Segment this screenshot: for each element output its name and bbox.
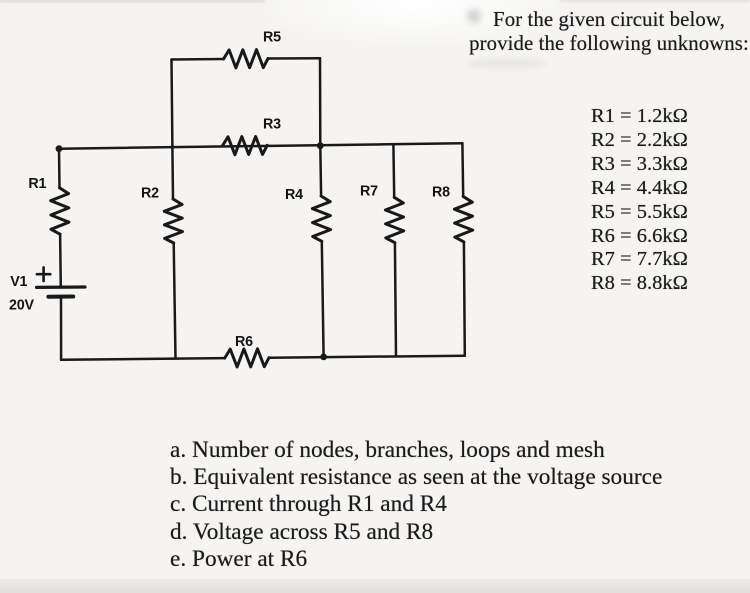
node: bottom bus / R4 junction xyxy=(320,354,327,361)
wire: top horizontal right segment from R5 xyxy=(268,57,320,60)
node: left top junction xyxy=(56,145,63,152)
svg-text:R3: R3 xyxy=(263,117,281,133)
svg-text:R2: R2 xyxy=(141,185,159,201)
wire: top-loop left vertical (R5 loop) xyxy=(170,60,173,148)
wire: left branch battery to bottom corner xyxy=(60,297,63,360)
wire: left branch top (node to R1) xyxy=(58,149,61,188)
svg-text:R5: R5 xyxy=(263,29,281,45)
resistor R6 xyxy=(225,349,269,367)
wire: middle horizontal bus from left node to R8 branch xyxy=(59,143,462,148)
wire: top-loop right vertical down to junction xyxy=(319,58,322,146)
resistor R8 xyxy=(454,197,472,242)
wire: R8 branch upper xyxy=(461,143,464,196)
battery V1 long plate xyxy=(37,285,85,289)
wire: left branch R1 to battery xyxy=(59,234,62,287)
resistor R3 xyxy=(222,137,267,155)
resistor R2 xyxy=(164,199,182,243)
svg-text:R6: R6 xyxy=(235,334,253,350)
node: mid bus / R4-R5 junction xyxy=(317,142,324,149)
resistor R1 xyxy=(51,188,69,234)
wire: R7 branch lower xyxy=(395,243,396,357)
svg-text:R8: R8 xyxy=(432,185,450,201)
svg-text:R4: R4 xyxy=(285,187,303,203)
wire: top horizontal left segment to R5 xyxy=(172,58,224,61)
wire: R8 branch lower xyxy=(463,242,466,356)
wire: R2 branch lower xyxy=(174,243,176,358)
wire: bottom bus left segment to R6 xyxy=(61,358,225,360)
wire: R7 branch upper xyxy=(392,144,395,197)
wire: R2 branch upper xyxy=(171,147,174,199)
svg-text:R7: R7 xyxy=(360,184,378,200)
battery V1 plus sign xyxy=(37,267,50,281)
wire: bottom bus right segment from R6 to right corner xyxy=(269,356,465,358)
svg-text:20V: 20V xyxy=(9,298,35,314)
battery V1 short plate xyxy=(48,295,73,299)
resistor R7 xyxy=(385,197,403,242)
resistor R4 xyxy=(312,196,330,241)
svg-text:V1: V1 xyxy=(10,274,27,290)
svg-text:R1: R1 xyxy=(28,176,46,192)
wire: R4 branch lower xyxy=(322,241,324,357)
wire: R4 branch upper xyxy=(319,146,322,196)
resistor R5 xyxy=(224,50,269,68)
